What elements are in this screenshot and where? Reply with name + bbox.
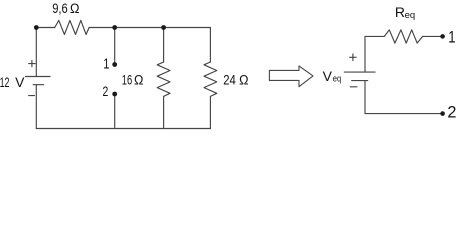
svg-text:9,6: 9,6 — [52, 1, 68, 16]
junction node A (stub to node 1) — [112, 25, 117, 30]
wire bottom of left circuit — [36, 128, 210, 130]
svg-text:16: 16 — [122, 73, 132, 88]
svg-text:24: 24 — [223, 72, 236, 87]
svg-text:12: 12 — [0, 74, 10, 90]
battery source V1 12 V negative plate — [33, 84, 44, 86]
wire left edge of equivalent circuit (top) — [364, 36, 366, 72]
wire from source Veq top to resistor Req — [365, 35, 384, 37]
resistor Req — [384, 30, 422, 43]
svg-text:eq: eq — [333, 74, 341, 85]
wire left edge of equivalent circuit (bottom) — [364, 81, 366, 114]
junction top-left corner — [34, 25, 39, 30]
svg-text:Ω: Ω — [70, 1, 80, 16]
wire from resistor R2 to bottom — [163, 96, 165, 128]
svg-text:1: 1 — [448, 29, 455, 47]
minus sign of source V1 — [29, 95, 35, 97]
node 1 terminal dot — [112, 62, 117, 67]
battery source Veq positive plate — [344, 71, 375, 73]
minus sign of source Veq — [350, 86, 357, 88]
junction node B (top of R2) — [161, 25, 166, 30]
plus sign of source V1 — [29, 60, 35, 66]
svg-text:2: 2 — [447, 104, 456, 122]
battery source Veq negative plate — [352, 80, 368, 82]
wire from top-right corner into resistor R3 — [209, 28, 211, 63]
battery source V1 12 V positive plate — [26, 76, 51, 78]
svg-text:2: 2 — [103, 83, 109, 99]
wire stub from top to node 1 — [114, 28, 116, 65]
svg-text:V: V — [323, 68, 333, 84]
svg-text:Ω: Ω — [239, 72, 248, 87]
wire top-left to resistor R1 — [36, 27, 54, 29]
resistor R1 9,6 ohm — [55, 20, 89, 34]
terminal 2 dot of equivalent circuit — [440, 111, 445, 116]
resistor R2 16 ohm — [157, 62, 170, 96]
wire left edge from source V1 to bottom corner — [35, 85, 37, 129]
svg-text:eq: eq — [405, 10, 416, 21]
wire from resistor Req to terminal 1 — [423, 35, 441, 37]
wire left edge from top corner to source V1 — [35, 28, 37, 77]
wire from top into resistor R2 — [163, 28, 165, 63]
svg-text:R: R — [395, 4, 405, 20]
wire from resistor R3 to bottom-right corner — [209, 96, 211, 128]
svg-text:1: 1 — [103, 55, 109, 72]
wire bottom from source Veq to terminal 2 — [365, 113, 440, 115]
wire top from R1 to node A junction — [89, 27, 115, 29]
svg-text:Ω: Ω — [134, 73, 143, 88]
wire top from node B to top-right corner — [164, 27, 211, 29]
wire stub from node 2 to bottom — [114, 94, 116, 129]
wire top from node A to node B junction — [115, 27, 164, 29]
block arrow (circuit equivalence) — [269, 66, 313, 87]
node 2 terminal dot — [112, 92, 117, 97]
plus sign of source Veq — [350, 54, 357, 61]
resistor R3 24 ohm — [204, 62, 217, 96]
svg-text:V: V — [15, 74, 25, 90]
terminal 1 dot of equivalent circuit — [440, 34, 445, 39]
